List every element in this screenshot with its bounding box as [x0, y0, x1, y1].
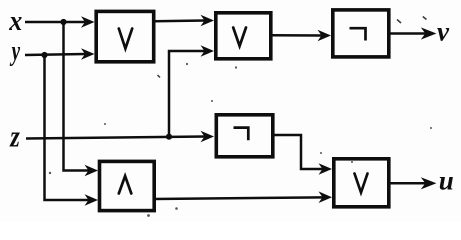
svg-text:x: x [8, 4, 22, 37]
wire NOT1 output to node v [389, 27, 436, 39]
wire y input to OR1 [25, 48, 95, 60]
svg-text:u: u [439, 166, 454, 196]
value label NOT2 symbol [234, 128, 249, 141]
wire NOT2 output to OR3 top input [274, 135, 332, 175]
gate NOT1 (negation box) [333, 10, 389, 57]
junction dot on x wire [60, 19, 66, 25]
gate OR1 (disjunction box) [96, 11, 154, 61]
value label NOT1 symbol [350, 28, 366, 40]
wire OR2 output to NOT1 input [271, 30, 331, 42]
gate AND1 (conjunction box) [100, 161, 155, 210]
wire z input to NOT2 [26, 131, 214, 143]
wire x branch down to AND1 top input [64, 22, 99, 176]
wire OR3 output to node u [390, 177, 437, 189]
scan speck marks [158, 17, 427, 78]
wire z branch up to OR2 bottom input [169, 45, 214, 137]
gate OR2 (disjunction box) [216, 13, 271, 59]
gate NOT2 (negation box) [216, 115, 272, 157]
wire y branch down to AND1 bottom input [45, 55, 99, 206]
value label OR1 symbol [119, 29, 132, 49]
svg-text:z: z [9, 118, 19, 153]
value label OR2 symbol [233, 28, 246, 47]
value label AND1 symbol [119, 176, 132, 194]
value label OR3 symbol [355, 174, 368, 193]
wire x input to OR1 [25, 16, 95, 28]
svg-text:v: v [437, 16, 450, 46]
wire AND1 output to OR3 bottom input [154, 191, 332, 203]
wire OR1 output to OR2 top input [154, 15, 214, 27]
gate OR3 (disjunction box) [334, 159, 389, 207]
junction dot on z wire [166, 134, 172, 140]
junction dot on y wire [41, 52, 47, 58]
